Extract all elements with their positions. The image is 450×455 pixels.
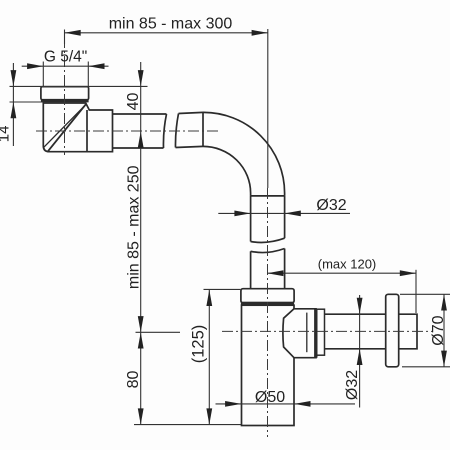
dimension 40	[140, 62, 142, 425]
svg-text:Ø32: Ø32	[316, 197, 346, 214]
dimension 80	[134, 332, 241, 424]
svg-text:Ø70: Ø70	[430, 315, 447, 345]
inlet nut G 5/4	[41, 87, 89, 101]
dimension min 85 - max 250	[138, 316, 144, 332]
dimension (125)	[204, 289, 241, 424]
elbow miter seam	[44, 104, 86, 151]
trap top nut	[241, 289, 294, 304]
svg-text:Ø32: Ø32	[344, 370, 361, 400]
svg-text:(max 120): (max 120)	[318, 257, 377, 272]
svg-text:80: 80	[125, 371, 142, 389]
wall flange	[386, 294, 399, 367]
dimension min 85 - max 300	[65, 29, 268, 188]
elbow body	[43, 103, 112, 152]
centerline trap vertical axis	[267, 188, 269, 437]
outlet pipe	[325, 314, 386, 349]
svg-text:(125): (125)	[189, 325, 207, 364]
dimension (max 120)	[267, 270, 416, 313]
dimension diameter 70 flange	[400, 294, 450, 367]
svg-text:Ø50: Ø50	[255, 389, 285, 406]
vertical pipe upper segment	[251, 196, 285, 243]
centerline horizontal pipe axis	[36, 130, 218, 132]
trap body	[242, 305, 295, 425]
outlet dome seam	[306, 313, 308, 353]
centerline outlet axis	[222, 330, 432, 332]
dimension diameter 32 outlet	[359, 295, 361, 408]
svg-text:min 85 - max 300: min 85 - max 300	[109, 16, 233, 33]
outlet pipe stub behind flange	[399, 314, 417, 349]
svg-text:G 5/4": G 5/4"	[44, 48, 87, 65]
outlet ring thick band	[314, 309, 317, 358]
centerline inlet axis	[64, 37, 66, 155]
outlet dome nut	[283, 309, 325, 358]
dimension diameter 50 trap body	[216, 403, 356, 405]
inlet pipe segment 2 with 90 degree bend	[175, 112, 284, 196]
svg-text:40: 40	[125, 93, 142, 111]
dimension 14	[10, 63, 148, 146]
dimension diameter 32 vertical pipe	[218, 212, 350, 214]
inlet pipe segment 1	[113, 114, 167, 148]
dimension G 5/4 inch	[22, 62, 109, 87]
svg-text:14: 14	[0, 126, 13, 143]
svg-text:min 85 - max 250: min 85 - max 250	[125, 165, 142, 289]
vertical pipe lower segment	[251, 249, 285, 290]
